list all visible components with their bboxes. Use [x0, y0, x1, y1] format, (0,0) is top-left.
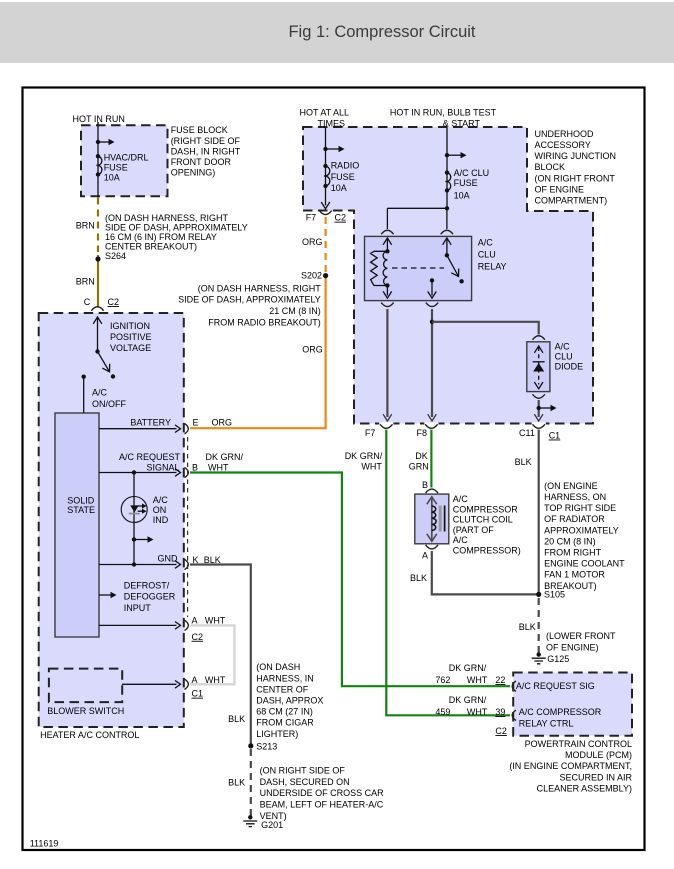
svg-text:K: K: [193, 555, 199, 565]
svg-text:ORG: ORG: [302, 344, 323, 354]
svg-text:COMPARTMENT): COMPARTMENT): [535, 195, 608, 205]
svg-text:WHT: WHT: [205, 675, 226, 685]
svg-text:S202: S202: [301, 271, 322, 281]
svg-text:(ON RIGHT SIDE OF: (ON RIGHT SIDE OF: [260, 765, 346, 775]
svg-text:FUSE: FUSE: [331, 172, 355, 182]
svg-text:HARNESS, ON: HARNESS, ON: [544, 492, 606, 502]
svg-text:INPUT: INPUT: [124, 603, 152, 613]
svg-text:(ON DASH: (ON DASH: [256, 662, 300, 672]
svg-text:VOLTAGE: VOLTAGE: [110, 343, 151, 353]
svg-text:SECURED IN AIR: SECURED IN AIR: [559, 772, 632, 782]
svg-text:RELAY: RELAY: [478, 262, 507, 272]
svg-text:(ON RIGHT FRONT: (ON RIGHT FRONT: [535, 173, 616, 183]
svg-text:A/C CLU: A/C CLU: [454, 168, 490, 178]
svg-text:LIGHTER): LIGHTER): [256, 729, 298, 739]
svg-text:E: E: [193, 418, 199, 428]
svg-text:10A: 10A: [104, 173, 120, 183]
svg-text:CENTER BREAKOUT): CENTER BREAKOUT): [105, 241, 197, 251]
svg-text:C2: C2: [495, 726, 507, 736]
svg-text:CLU: CLU: [478, 250, 496, 260]
svg-text:A/C: A/C: [453, 494, 469, 504]
svg-text:(ON DASH HARNESS, RIGHT: (ON DASH HARNESS, RIGHT: [198, 283, 322, 293]
svg-text:COMPRESSOR: COMPRESSOR: [453, 504, 519, 514]
svg-text:OPENING): OPENING): [171, 168, 216, 178]
svg-text:459: 459: [435, 707, 450, 717]
svg-text:UNDERHOOD: UNDERHOOD: [535, 129, 595, 139]
svg-text:C1: C1: [549, 431, 561, 441]
svg-text:& START: & START: [443, 119, 481, 129]
svg-text:WIRING JUNCTION: WIRING JUNCTION: [535, 151, 617, 161]
svg-text:20 CM (8 IN): 20 CM (8 IN): [544, 536, 596, 546]
svg-text:C2: C2: [335, 213, 347, 223]
svg-text:A/C: A/C: [555, 342, 571, 352]
svg-text:DEFROST/: DEFROST/: [124, 581, 170, 591]
svg-text:COMPRESSOR): COMPRESSOR): [453, 545, 521, 555]
svg-text:RADIO: RADIO: [331, 161, 360, 171]
svg-text:BRN: BRN: [76, 277, 95, 287]
svg-text:F8: F8: [417, 428, 428, 438]
svg-text:UNDERSIDE OF CROSS CAR: UNDERSIDE OF CROSS CAR: [260, 788, 385, 798]
svg-text:HOT IN RUN: HOT IN RUN: [73, 114, 125, 124]
svg-text:HVAC/DRL: HVAC/DRL: [104, 153, 149, 163]
svg-text:ON: ON: [153, 505, 167, 515]
svg-text:FUSE: FUSE: [104, 163, 128, 173]
svg-text:OF RADIATOR: OF RADIATOR: [544, 514, 605, 524]
svg-text:IND: IND: [153, 515, 169, 525]
svg-text:22: 22: [495, 675, 505, 685]
svg-text:(RIGHT SIDE OF: (RIGHT SIDE OF: [171, 136, 241, 146]
svg-text:POSITIVE: POSITIVE: [110, 332, 152, 342]
svg-text:DK: DK: [415, 451, 428, 461]
svg-text:(IN ENGINE COMPARTMENT,: (IN ENGINE COMPARTMENT,: [509, 761, 632, 771]
svg-text:G125: G125: [547, 654, 569, 664]
svg-text:C: C: [84, 297, 91, 307]
svg-text:FROM RIGHT: FROM RIGHT: [544, 548, 601, 558]
svg-text:762: 762: [435, 675, 450, 685]
svg-text:A/C REQUEST SIG: A/C REQUEST SIG: [516, 681, 595, 691]
svg-text:SOLID: SOLID: [67, 495, 95, 505]
svg-text:HOT AT ALL: HOT AT ALL: [300, 108, 350, 118]
svg-text:IGNITION: IGNITION: [110, 321, 150, 331]
svg-text:111619: 111619: [30, 838, 59, 848]
svg-text:CLU: CLU: [555, 352, 573, 362]
svg-text:ON/OFF: ON/OFF: [92, 399, 126, 409]
svg-text:DASH, IN RIGHT: DASH, IN RIGHT: [171, 146, 241, 156]
svg-text:(LOWER FRONT: (LOWER FRONT: [546, 631, 616, 641]
svg-text:BLOCK: BLOCK: [535, 162, 566, 172]
svg-text:BEAM, LEFT OF HEATER-A/C: BEAM, LEFT OF HEATER-A/C: [260, 800, 384, 810]
svg-text:FROM RADIO BREAKOUT): FROM RADIO BREAKOUT): [208, 317, 321, 327]
svg-text:DIODE: DIODE: [555, 362, 584, 372]
svg-text:BLOWER SWITCH: BLOWER SWITCH: [47, 706, 124, 716]
svg-text:FROM CIGAR: FROM CIGAR: [256, 718, 314, 728]
svg-text:FUSE: FUSE: [454, 178, 478, 188]
svg-text:F7: F7: [365, 428, 376, 438]
svg-text:BLK: BLK: [519, 622, 536, 632]
svg-text:10A: 10A: [454, 191, 470, 201]
svg-text:21 CM (8 IN): 21 CM (8 IN): [269, 306, 321, 316]
svg-text:BLK: BLK: [204, 555, 221, 565]
svg-text:C2: C2: [108, 297, 120, 307]
svg-text:APPROXIMATELY: APPROXIMATELY: [544, 525, 619, 535]
svg-text:C11: C11: [519, 428, 535, 438]
svg-text:SIDE OF DASH, APPROXIMATELY: SIDE OF DASH, APPROXIMATELY: [105, 223, 248, 233]
svg-text:A: A: [192, 615, 198, 625]
svg-text:GRN: GRN: [409, 462, 429, 472]
svg-text:S213: S213: [256, 742, 277, 752]
svg-text:CENTER OF: CENTER OF: [256, 684, 309, 694]
svg-text:TIMES: TIMES: [318, 119, 346, 129]
svg-text:C2: C2: [192, 632, 204, 642]
svg-text:B: B: [192, 463, 198, 473]
svg-text:A/C: A/C: [92, 388, 108, 398]
svg-text:BATTERY: BATTERY: [130, 418, 171, 428]
svg-text:STATE: STATE: [67, 505, 95, 515]
svg-text:S264: S264: [105, 251, 126, 261]
svg-text:BLK: BLK: [228, 714, 245, 724]
svg-text:HEATER A/C CONTROL: HEATER A/C CONTROL: [40, 730, 139, 740]
svg-text:A/C: A/C: [153, 495, 169, 505]
svg-text:A/C: A/C: [478, 238, 494, 248]
svg-text:C1: C1: [192, 689, 204, 699]
svg-text:HARNESS, IN: HARNESS, IN: [256, 673, 314, 683]
svg-text:A/C COMPRESSOR: A/C COMPRESSOR: [519, 707, 602, 717]
svg-text:S105: S105: [544, 590, 565, 600]
svg-text:FRONT DOOR: FRONT DOOR: [171, 157, 232, 167]
svg-text:DASH, SECURED ON: DASH, SECURED ON: [260, 777, 350, 787]
svg-text:BLK: BLK: [410, 573, 427, 583]
svg-text:DK GRN/: DK GRN/: [449, 695, 487, 705]
svg-text:POWERTRAIN CONTROL: POWERTRAIN CONTROL: [525, 739, 632, 749]
svg-text:68 CM (27 IN): 68 CM (27 IN): [256, 707, 313, 717]
svg-text:G201: G201: [261, 820, 283, 830]
svg-text:A/C REQUEST: A/C REQUEST: [119, 452, 181, 462]
svg-text:B: B: [422, 480, 428, 490]
svg-text:ORG: ORG: [212, 418, 233, 428]
svg-text:ORG: ORG: [302, 237, 323, 247]
svg-text:FUSE BLOCK: FUSE BLOCK: [171, 125, 228, 135]
svg-text:DEFOGGER: DEFOGGER: [124, 592, 176, 602]
svg-text:SIGNAL: SIGNAL: [146, 463, 179, 473]
svg-text:DK GRN/: DK GRN/: [345, 451, 383, 461]
svg-text:WHT: WHT: [361, 462, 382, 472]
svg-text:A: A: [422, 551, 428, 561]
svg-text:MODULE (PCM): MODULE (PCM): [565, 750, 632, 760]
svg-text:10A: 10A: [331, 183, 347, 193]
svg-text:ENGINE COOLANT: ENGINE COOLANT: [544, 559, 625, 569]
svg-text:WHT: WHT: [467, 707, 488, 717]
svg-text:(PART OF: (PART OF: [453, 525, 495, 535]
svg-text:CLUTCH COIL: CLUTCH COIL: [453, 515, 513, 525]
svg-text:(ON ENGINE: (ON ENGINE: [544, 481, 598, 491]
svg-text:F7: F7: [306, 213, 317, 223]
svg-text:ACCESSORY: ACCESSORY: [535, 140, 591, 150]
svg-text:BRN: BRN: [76, 221, 95, 231]
svg-text:RELAY CTRL: RELAY CTRL: [519, 718, 574, 728]
svg-text:OF ENGINE: OF ENGINE: [535, 184, 585, 194]
svg-text:WHT: WHT: [205, 615, 226, 625]
svg-text:DASH, APPROX: DASH, APPROX: [256, 696, 323, 706]
svg-text:WHT: WHT: [467, 675, 488, 685]
svg-text:BLK: BLK: [228, 778, 245, 788]
svg-text:TOP RIGHT SIDE: TOP RIGHT SIDE: [544, 503, 616, 513]
svg-text:FAN 1 MOTOR: FAN 1 MOTOR: [544, 570, 605, 580]
svg-text:A: A: [192, 675, 198, 685]
svg-text:CLEANER ASSEMBLY): CLEANER ASSEMBLY): [537, 784, 632, 794]
svg-text:39: 39: [495, 707, 505, 717]
svg-text:A/C: A/C: [453, 535, 469, 545]
svg-text:GND: GND: [158, 554, 179, 564]
svg-text:DK GRN/: DK GRN/: [206, 452, 244, 462]
svg-text:DK GRN/: DK GRN/: [449, 663, 487, 673]
svg-text:OF ENGINE): OF ENGINE): [546, 642, 599, 652]
svg-text:BLK: BLK: [515, 457, 532, 467]
svg-text:HOT IN RUN, BULB TEST: HOT IN RUN, BULB TEST: [390, 108, 497, 118]
svg-text:SIDE OF DASH, APPROXIMATELY: SIDE OF DASH, APPROXIMATELY: [178, 295, 321, 305]
svg-text:WHT: WHT: [208, 463, 229, 473]
